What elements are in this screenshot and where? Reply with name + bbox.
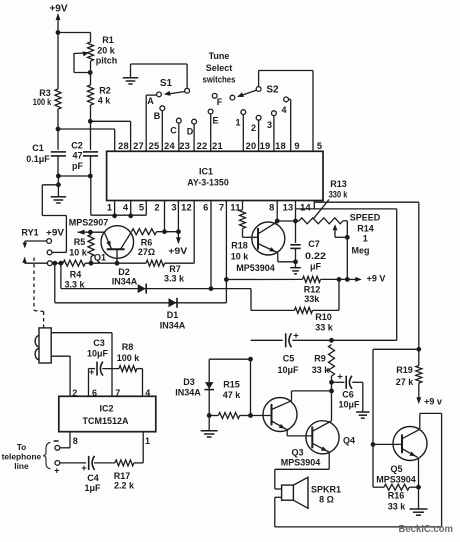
svg-text:telephone: telephone: [2, 451, 42, 461]
svg-text:IC1: IC1: [199, 167, 213, 177]
svg-text:1: 1: [145, 436, 150, 446]
svg-text:R2: R2: [99, 86, 111, 96]
svg-text:6: 6: [203, 202, 208, 212]
svg-text:10 k: 10 k: [69, 248, 88, 258]
svg-text:20 k: 20 k: [97, 46, 116, 56]
svg-text:B: B: [154, 111, 161, 121]
svg-text:IN34A: IN34A: [160, 321, 186, 331]
svg-text:C3: C3: [93, 338, 105, 348]
svg-text:12: 12: [181, 202, 192, 212]
svg-text:25: 25: [149, 141, 160, 151]
svg-text:7: 7: [219, 202, 224, 212]
svg-text:5: 5: [317, 141, 322, 151]
svg-text:C4: C4: [87, 473, 99, 483]
svg-text:24: 24: [164, 141, 175, 151]
svg-text:Q4: Q4: [343, 435, 355, 445]
svg-text:1μF: 1μF: [84, 483, 101, 493]
svg-text:F: F: [217, 97, 223, 107]
svg-text:27Ω: 27Ω: [138, 247, 155, 257]
svg-text:+9V: +9V: [168, 246, 187, 256]
svg-text:R1: R1: [102, 35, 114, 45]
svg-text:33 k: 33 k: [388, 501, 407, 511]
svg-text:23: 23: [179, 141, 190, 151]
svg-text:pF: pF: [72, 161, 83, 171]
svg-text:1: 1: [235, 118, 240, 128]
svg-text:330 k: 330 k: [329, 190, 349, 200]
svg-text:2: 2: [251, 123, 256, 133]
svg-text:10 k: 10 k: [231, 251, 250, 261]
svg-text:9: 9: [294, 141, 299, 151]
svg-text:Q3: Q3: [291, 447, 303, 457]
svg-text:E: E: [212, 116, 218, 126]
svg-text:33k: 33k: [304, 294, 320, 304]
svg-text:47 k: 47 k: [223, 390, 242, 400]
svg-text:Tune: Tune: [209, 51, 230, 61]
svg-text:1: 1: [107, 202, 112, 212]
svg-text:To: To: [17, 442, 27, 452]
svg-text:pitch: pitch: [96, 56, 118, 66]
svg-text:R19: R19: [396, 365, 413, 375]
svg-text:+9 V: +9 V: [367, 274, 386, 284]
svg-text:+9 v: +9 v: [424, 397, 442, 407]
svg-text:+: +: [337, 372, 343, 383]
svg-text:13: 13: [283, 202, 294, 212]
svg-text:8: 8: [269, 202, 274, 212]
svg-text:20: 20: [246, 141, 257, 151]
svg-text:+9V: +9V: [49, 4, 67, 15]
svg-text:A: A: [147, 96, 154, 106]
svg-text:18: 18: [275, 141, 286, 151]
svg-text:D1: D1: [167, 310, 179, 320]
svg-text:19: 19: [260, 141, 271, 151]
svg-text:1: 1: [363, 233, 368, 243]
svg-text:IN34A: IN34A: [175, 388, 201, 398]
svg-text:10μF: 10μF: [277, 365, 299, 375]
svg-text:MP53904: MP53904: [236, 263, 275, 273]
svg-text:R14: R14: [357, 223, 374, 233]
svg-text:R7: R7: [169, 264, 181, 274]
svg-text:0.22: 0.22: [305, 251, 326, 261]
svg-text:IN34A: IN34A: [112, 277, 138, 287]
svg-text:C5: C5: [283, 354, 295, 364]
svg-text:27: 27: [133, 141, 144, 151]
svg-text:10μF: 10μF: [338, 399, 360, 409]
svg-text:MPS3904: MPS3904: [281, 457, 321, 467]
svg-text:R15: R15: [223, 379, 240, 389]
svg-text:C6: C6: [342, 389, 354, 399]
svg-text:MPS2907: MPS2907: [69, 217, 109, 227]
svg-text:27 k: 27 k: [396, 377, 415, 387]
svg-text:S2: S2: [266, 85, 279, 96]
svg-text:+: +: [89, 367, 95, 378]
svg-text:MPS3904: MPS3904: [376, 474, 416, 484]
svg-text:4: 4: [123, 202, 129, 212]
svg-text:D: D: [187, 127, 194, 137]
svg-text:Meg: Meg: [352, 246, 370, 256]
svg-text:22: 22: [197, 141, 208, 151]
svg-text:IC2: IC2: [99, 404, 113, 414]
svg-text:28: 28: [118, 141, 129, 151]
svg-text:C1: C1: [32, 143, 44, 153]
svg-text:33 k: 33 k: [312, 365, 331, 375]
svg-text:2.2 k: 2.2 k: [114, 480, 135, 490]
svg-text:+: +: [54, 465, 60, 476]
svg-text:R18: R18: [231, 240, 248, 250]
svg-text:R6: R6: [141, 237, 153, 247]
svg-text:100 k: 100 k: [117, 353, 141, 363]
svg-text:14: 14: [300, 202, 311, 212]
svg-text:7: 7: [115, 388, 120, 398]
svg-text:RY1: RY1: [21, 228, 38, 238]
svg-text:8: 8: [73, 436, 78, 446]
svg-text:BeckIC.com: BeckIC.com: [399, 524, 454, 535]
svg-text:R12: R12: [304, 285, 321, 295]
svg-text:S1: S1: [160, 78, 173, 89]
svg-text:R17: R17: [114, 471, 131, 481]
svg-text:0.1μF: 0.1μF: [26, 154, 50, 164]
svg-text:D2: D2: [118, 267, 130, 277]
svg-text:2: 2: [154, 202, 159, 212]
svg-text:6: 6: [92, 388, 97, 398]
svg-text:R4: R4: [70, 270, 82, 280]
svg-text:33 k: 33 k: [315, 323, 334, 333]
svg-text:3: 3: [171, 202, 176, 212]
svg-text:Q1: Q1: [94, 253, 106, 263]
svg-text:47: 47: [72, 151, 82, 161]
svg-text:8 Ω: 8 Ω: [319, 495, 334, 505]
svg-text:Select: Select: [206, 63, 233, 73]
svg-text:line: line: [14, 461, 29, 471]
svg-text:R13: R13: [330, 179, 347, 189]
svg-text:SPKR1: SPKR1: [311, 485, 341, 495]
svg-text:R16: R16: [388, 490, 405, 500]
svg-text:100 k: 100 k: [33, 97, 52, 107]
svg-text:3.3 k: 3.3 k: [164, 274, 185, 284]
svg-text:4: 4: [145, 388, 150, 398]
svg-text:Q5: Q5: [390, 464, 402, 474]
svg-text:C2: C2: [71, 141, 83, 151]
svg-text:R10: R10: [315, 312, 332, 322]
svg-text:TCM1512A: TCM1512A: [82, 416, 129, 426]
svg-text:C7: C7: [308, 239, 320, 249]
svg-text:5: 5: [139, 202, 144, 212]
svg-text:R9: R9: [314, 354, 326, 364]
svg-text:AY-3-1350: AY-3-1350: [187, 178, 229, 188]
svg-text:switches: switches: [203, 75, 236, 85]
svg-text:+9V: +9V: [46, 228, 64, 238]
svg-text:4: 4: [281, 105, 286, 115]
svg-text:μF: μF: [310, 262, 322, 272]
svg-text:4 k: 4 k: [98, 96, 112, 106]
svg-text:C: C: [170, 126, 177, 136]
svg-text:SPEED: SPEED: [350, 212, 381, 222]
svg-text:D3: D3: [183, 377, 195, 387]
svg-text:R8: R8: [122, 342, 134, 352]
svg-text:R5: R5: [74, 237, 86, 247]
svg-text:10μF: 10μF: [87, 348, 109, 358]
svg-text:3: 3: [267, 120, 272, 130]
svg-text:2: 2: [72, 388, 77, 398]
svg-text:21: 21: [212, 141, 223, 151]
